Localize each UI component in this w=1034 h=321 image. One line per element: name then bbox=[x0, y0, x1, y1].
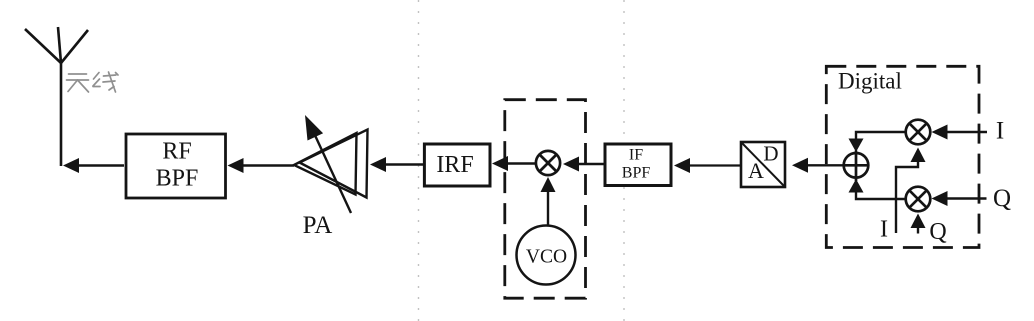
svg-text:IF: IF bbox=[629, 147, 643, 164]
wire input Q to mixer M3 bbox=[946, 197, 987, 199]
wire carrier Q to mixer M3 bbox=[917, 228, 919, 234]
antenna bbox=[25, 27, 88, 166]
svg-text:D: D bbox=[763, 142, 778, 166]
svg-text:I: I bbox=[996, 118, 1004, 145]
column separator dotted line right bbox=[623, 0, 625, 321]
antenna label 天线 bbox=[67, 72, 119, 92]
filter RF BPF bbox=[126, 134, 226, 198]
wire mixer M1 to IRF bbox=[506, 162, 536, 164]
svg-text:A: A bbox=[748, 158, 764, 183]
dashed box upconverter bbox=[505, 100, 586, 299]
svg-text:Digital: Digital bbox=[838, 69, 902, 94]
filter IF BPF bbox=[605, 144, 671, 186]
mixer M3 bbox=[906, 187, 931, 212]
wire input I to mixer M2 bbox=[946, 131, 987, 133]
svg-text:VCO: VCO bbox=[526, 247, 567, 268]
svg-text:BPF: BPF bbox=[622, 165, 651, 182]
amplifier PA bbox=[294, 130, 368, 214]
svg-text:Q: Q bbox=[929, 219, 946, 245]
wire IF BPF to mixer M1 bbox=[577, 163, 605, 165]
wire summer to DAC bbox=[805, 164, 844, 166]
mixer M1 bbox=[536, 151, 560, 175]
oscillator VCO bbox=[517, 226, 576, 285]
svg-text:PA: PA bbox=[303, 212, 333, 239]
wire VCO to mixer M1 bbox=[547, 191, 549, 226]
wire mixer M2 to summer bbox=[856, 132, 906, 140]
summer S1 bbox=[844, 151, 870, 182]
svg-text:Q: Q bbox=[993, 185, 1011, 212]
filter IRF bbox=[424, 144, 490, 186]
dashed box Digital bbox=[826, 66, 979, 247]
wire RF BPF to antenna bbox=[75, 164, 124, 166]
wire IRF to PA bbox=[383, 163, 424, 165]
wire carrier I to mixer M2 bbox=[896, 161, 918, 233]
wire PA to RF BPF bbox=[240, 164, 294, 166]
svg-text:I: I bbox=[880, 217, 888, 243]
wire DAC to IF BPF bbox=[688, 164, 741, 166]
svg-text:RF: RF bbox=[162, 139, 191, 165]
wire mixer M3 to summer bbox=[856, 192, 906, 200]
svg-text:IRF: IRF bbox=[436, 152, 473, 178]
svg-text:BPF: BPF bbox=[156, 166, 199, 192]
mixer M2 bbox=[906, 120, 931, 145]
column separator dotted line left bbox=[418, 0, 420, 321]
DAC U1 bbox=[741, 142, 785, 188]
